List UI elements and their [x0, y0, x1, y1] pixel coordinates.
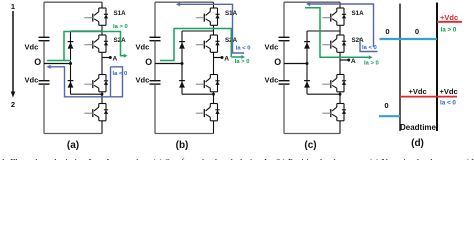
diode D1 (upper clamp, leg A) — [68, 42, 74, 49]
label 0 (upper waveform, before deadtime) — [385, 27, 389, 36]
wire (leg A clamp branch lower) — [71, 64, 104, 96]
transistor S2A (leg B) — [196, 35, 238, 52]
node 2 (dc bus terminal index) — [11, 100, 15, 109]
diode D1 (upper clamp, leg B) — [179, 42, 185, 49]
transistor S3A (leg B) — [196, 75, 220, 92]
wire (leg A dc bus lower segment) — [43, 84, 45, 133]
wire (upper waveform +Vdc level, red) — [437, 21, 462, 23]
diode D2 (lower clamp, leg C) — [304, 81, 310, 88]
label Ia<0 (lower waveform case) — [440, 100, 456, 107]
svg-text:O: O — [145, 57, 152, 67]
node A (output, leg B) — [214, 56, 230, 63]
label Ia>0 (leg B) — [235, 59, 250, 65]
svg-text:0: 0 — [384, 101, 388, 110]
svg-text:(b): (b) — [176, 140, 189, 151]
node O (neutral point, leg B) — [145, 57, 183, 67]
wire (leg B bottom rail) — [155, 133, 214, 135]
svg-text:(d): (d) — [411, 138, 424, 149]
svg-text:S1A: S1A — [225, 10, 238, 17]
transistor S4A (leg A) — [84, 104, 108, 121]
wire (leg B clamp branch upper) — [182, 31, 214, 64]
figure caption (clipped at bottom edge) — [1, 157, 474, 167]
svg-text:Ia > 0: Ia > 0 — [441, 27, 457, 34]
wire (leg B dc bus middle segment) — [154, 41, 156, 81]
value label Vdc (upper, leg A) — [25, 43, 39, 52]
wire (leg B clamp branch lower) — [182, 64, 215, 96]
wire (leg B switch-leg verticals) — [213, 2, 215, 133]
wire (leg A negative-current path, blue) — [47, 65, 123, 97]
svg-text:S1A: S1A — [352, 10, 365, 17]
label 0 (upper waveform, during deadtime) — [415, 27, 419, 36]
transistor S2A (leg A) — [84, 35, 126, 52]
label Ia>0 (leg A) — [113, 24, 128, 30]
svg-text:S2A: S2A — [352, 37, 365, 44]
label (c) — [304, 140, 316, 151]
svg-text:Ia > 0: Ia > 0 — [364, 60, 379, 66]
wire (leg A dc bus middle segment) — [43, 41, 45, 81]
node O (neutral point, leg C) — [274, 57, 308, 67]
svg-text:A: A — [351, 58, 356, 65]
transistor S4A (leg C) — [322, 104, 346, 121]
wire (leg C negative-current path, blue) — [306, 2, 378, 52]
wire (leg C switch-leg verticals) — [339, 2, 341, 133]
transistor S1A (leg C) — [322, 8, 364, 25]
label Ia>0 (leg C) — [364, 60, 379, 66]
svg-text:Deadtime: Deadtime — [400, 123, 437, 132]
transistor S1A (leg A) — [84, 8, 126, 25]
svg-text:A: A — [224, 56, 229, 63]
capacitor C1 (upper dc-link, leg A) — [39, 37, 50, 40]
svg-text:+Vdc: +Vdc — [440, 13, 458, 22]
wire (leg B dc bus upper segment) — [154, 2, 156, 37]
capacitor C2 (lower dc-link, leg C) — [279, 81, 290, 84]
node O (neutral point, leg A) — [34, 57, 72, 67]
value label Vdc (upper, leg B) — [136, 43, 150, 52]
wire (leg A dc bus upper segment) — [43, 2, 45, 37]
svg-text:2: 2 — [11, 100, 15, 109]
svg-text:O: O — [34, 57, 41, 67]
svg-text:O: O — [274, 57, 281, 67]
value label Vdc (upper, leg C) — [265, 43, 279, 52]
transistor S4A (leg B) — [196, 104, 220, 121]
capacitor C1 (upper dc-link, leg C) — [279, 37, 290, 40]
wire (leg A top rail) — [44, 1, 102, 3]
wire (leg C dc bus middle segment) — [283, 41, 285, 81]
node A (output, leg A) — [102, 56, 118, 63]
svg-text:Vdc: Vdc — [25, 43, 39, 52]
node 1 (dc bus terminal index) — [11, 2, 15, 11]
transistor S1A (leg B) — [196, 8, 238, 25]
wire (leg C positive-current path, green) — [305, 8, 373, 59]
svg-text:A: A — [113, 56, 118, 63]
label Ia<0 (leg C) — [362, 45, 377, 51]
wire (leg C clamp branch upper) — [307, 31, 340, 64]
svg-text:0: 0 — [385, 27, 389, 36]
svg-text:S1A: S1A — [114, 10, 127, 17]
label (b) — [176, 140, 189, 151]
transistor S3A (leg C) — [322, 75, 346, 92]
diode D1 (upper clamp, leg C) — [304, 42, 310, 49]
svg-text:1. Flow chart depicting Leg A: 1. Flow chart depicting Leg A operation:… — [1, 157, 474, 160]
svg-text:1: 1 — [11, 2, 15, 11]
svg-text:Ia < 0: Ia < 0 — [236, 45, 251, 51]
transistor S3A (leg A) — [84, 75, 108, 92]
label Ia<0 (leg B) — [236, 45, 251, 51]
capacitor C2 (lower dc-link, leg A) — [39, 81, 50, 84]
label (a) — [67, 140, 79, 151]
label Deadtime — [400, 123, 437, 132]
wire (lower waveform +Vdc level, red) — [400, 96, 457, 98]
wire (leg B negative-current path, blue) — [176, 2, 244, 53]
wire (leg C dc bus upper segment) — [283, 2, 285, 37]
capacitor C1 (upper dc-link, leg B) — [150, 37, 161, 40]
svg-text:Vdc: Vdc — [265, 43, 279, 52]
wire (leg C top rail) — [284, 1, 340, 3]
wire (leg B dc bus lower segment) — [154, 84, 156, 133]
label Ia>0 (upper waveform case) — [441, 27, 457, 34]
wire (deadtime start marker) — [399, 4, 401, 132]
wire (lower waveform zero level, cyan) — [379, 115, 400, 117]
wire (leg C bottom rail) — [284, 133, 340, 135]
label (d) — [411, 138, 424, 149]
wire (leg C dc bus lower segment) — [283, 84, 285, 133]
wire (leg A switch-leg verticals) — [101, 2, 103, 133]
svg-text:Ia < 0: Ia < 0 — [362, 45, 377, 51]
svg-text:Vdc: Vdc — [265, 76, 279, 85]
svg-text:Ia < 0: Ia < 0 — [113, 71, 128, 77]
svg-text:Ia > 0: Ia > 0 — [235, 59, 250, 65]
wire (leg A positive-current path, green) — [47, 32, 128, 61]
value label Vdc (lower, leg B) — [136, 76, 150, 85]
wire (upper waveform zero level, cyan) — [380, 38, 438, 40]
diode D2 (lower clamp, leg A) — [68, 81, 74, 88]
wire (bus index arrow 1-to-2) — [11, 11, 16, 98]
svg-text:Vdc: Vdc — [136, 43, 150, 52]
capacitor C2 (lower dc-link, leg B) — [150, 81, 161, 84]
wire (leg B positive-current path, green) — [160, 29, 245, 61]
svg-text:Vdc: Vdc — [25, 76, 39, 85]
wire (deadtime end marker) — [436, 3, 438, 132]
label +Vdc (upper waveform) — [440, 13, 458, 22]
label Ia<0 (leg A) — [113, 71, 128, 77]
label 0 (lower waveform) — [384, 101, 388, 110]
label +Vdc (lower waveform, during deadtime) — [409, 87, 427, 96]
svg-text:(c): (c) — [304, 140, 316, 151]
value label Vdc (lower, leg C) — [265, 76, 279, 85]
svg-text:Ia < 0: Ia < 0 — [440, 100, 456, 107]
wire (leg C clamp branch lower) — [307, 64, 341, 96]
transistor S2A (leg C) — [322, 35, 364, 52]
svg-text:+Vdc: +Vdc — [409, 87, 427, 96]
label +Vdc (lower waveform, after deadtime) — [440, 87, 458, 96]
svg-text:Vdc: Vdc — [136, 76, 150, 85]
value label Vdc (lower, leg A) — [25, 76, 39, 85]
diode D2 (lower clamp, leg B) — [179, 81, 185, 88]
wire (leg A clamp branch upper) — [71, 31, 103, 64]
svg-text:(a): (a) — [67, 140, 79, 151]
svg-text:+Vdc: +Vdc — [440, 87, 458, 96]
wire (leg B top rail) — [155, 1, 214, 3]
wire (leg A bottom rail) — [44, 133, 102, 135]
svg-text:0: 0 — [415, 27, 419, 36]
node A (output, leg C) — [340, 58, 356, 65]
svg-text:Ia > 0: Ia > 0 — [113, 24, 128, 30]
